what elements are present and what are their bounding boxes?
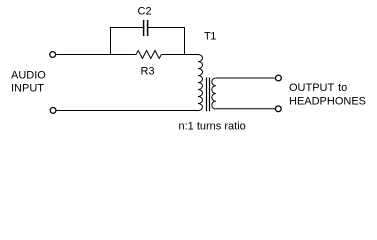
terminal: output bottom [275,106,281,112]
label: C2 [138,5,152,17]
label: n:1 turns ratio [179,121,246,133]
wire: top input wire from terminal to R3 [56,54,136,56]
svg-text:OUTPUT to: OUTPUT to [289,82,347,94]
terminal: output top [276,75,282,81]
wire: bottom input wire [57,110,198,112]
wire: output bottom wire [216,108,275,110]
svg-text:HEADPHONES: HEADPHONES [289,96,366,108]
svg-text:AUDIO: AUDIO [11,69,46,81]
terminal: audio input top [50,52,56,58]
wire: right riser of parallel branch [184,27,186,55]
svg-text:T1: T1 [204,31,216,43]
wire: capacitor branch right segment [148,27,184,29]
svg-text:R3: R3 [141,66,155,78]
label: AUDIO INPUT [11,69,46,94]
wire: capacitor branch left segment [111,27,144,29]
label: OUTPUT to HEADPHONES [289,82,366,107]
wire: output top wire [216,77,275,79]
transformer T1 primary winding [198,55,203,111]
svg-text:INPUT: INPUT [11,82,44,94]
wire: top wire from R3 to transformer primary [161,54,198,56]
terminal: audio input bottom [50,108,56,114]
transformer T1 core [207,78,210,112]
wire: left riser of parallel branch [110,27,112,55]
capacitor C2 [144,20,148,36]
resistor R3 [136,51,161,59]
label: R3 [141,66,155,78]
transformer T1 secondary winding [212,78,216,109]
svg-text:n:1 turns ratio: n:1 turns ratio [179,121,246,133]
label: T1 [204,31,216,43]
svg-text:C2: C2 [138,5,152,17]
